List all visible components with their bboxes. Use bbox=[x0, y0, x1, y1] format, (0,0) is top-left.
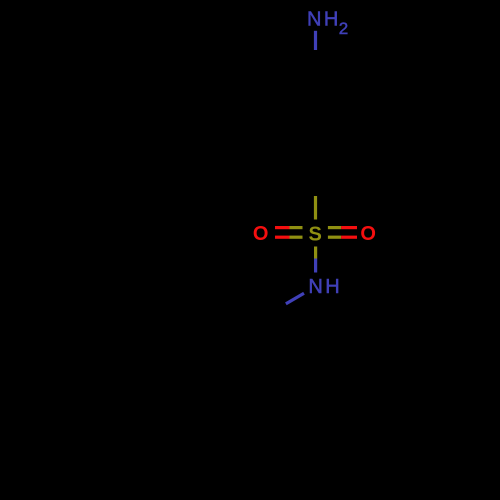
bond S-N yellow half bbox=[314, 247, 317, 259]
bond C4-S yellow half bbox=[314, 196, 317, 220]
svg-text:2: 2 bbox=[339, 19, 348, 38]
svg-text:O: O bbox=[253, 223, 269, 245]
svg-text:NH: NH bbox=[308, 276, 342, 298]
bond NH2 to ring, blue half bbox=[314, 31, 317, 50]
bond S-N blue half bbox=[314, 259, 317, 273]
benzyl CH2-ring2 bond (black) bbox=[209, 322, 256, 349]
right S=O double bond, sulfur-colored halves bbox=[328, 228, 341, 238]
svg-text:NH: NH bbox=[307, 8, 341, 30]
right S=O double bond, red halves bbox=[341, 228, 357, 238]
svg-text:S: S bbox=[309, 223, 322, 245]
svg-text:O: O bbox=[360, 223, 376, 245]
bond N-CH2 black half bbox=[256, 304, 286, 322]
benzene ring 1 (aniline ring, carbon bonds black = invisible) bbox=[269, 72, 363, 180]
bond N(amine)-C1 upper black half bbox=[314, 50, 317, 72]
benzene ring 2 (black = invisible) bbox=[115, 322, 209, 430]
bond N-CH2 blue half bbox=[286, 293, 304, 304]
left S=O double bond, red halves bbox=[275, 228, 290, 238]
left S=O double bond, sulfur-colored halves bbox=[290, 228, 303, 238]
bond C4-S black half bbox=[314, 180, 317, 196]
